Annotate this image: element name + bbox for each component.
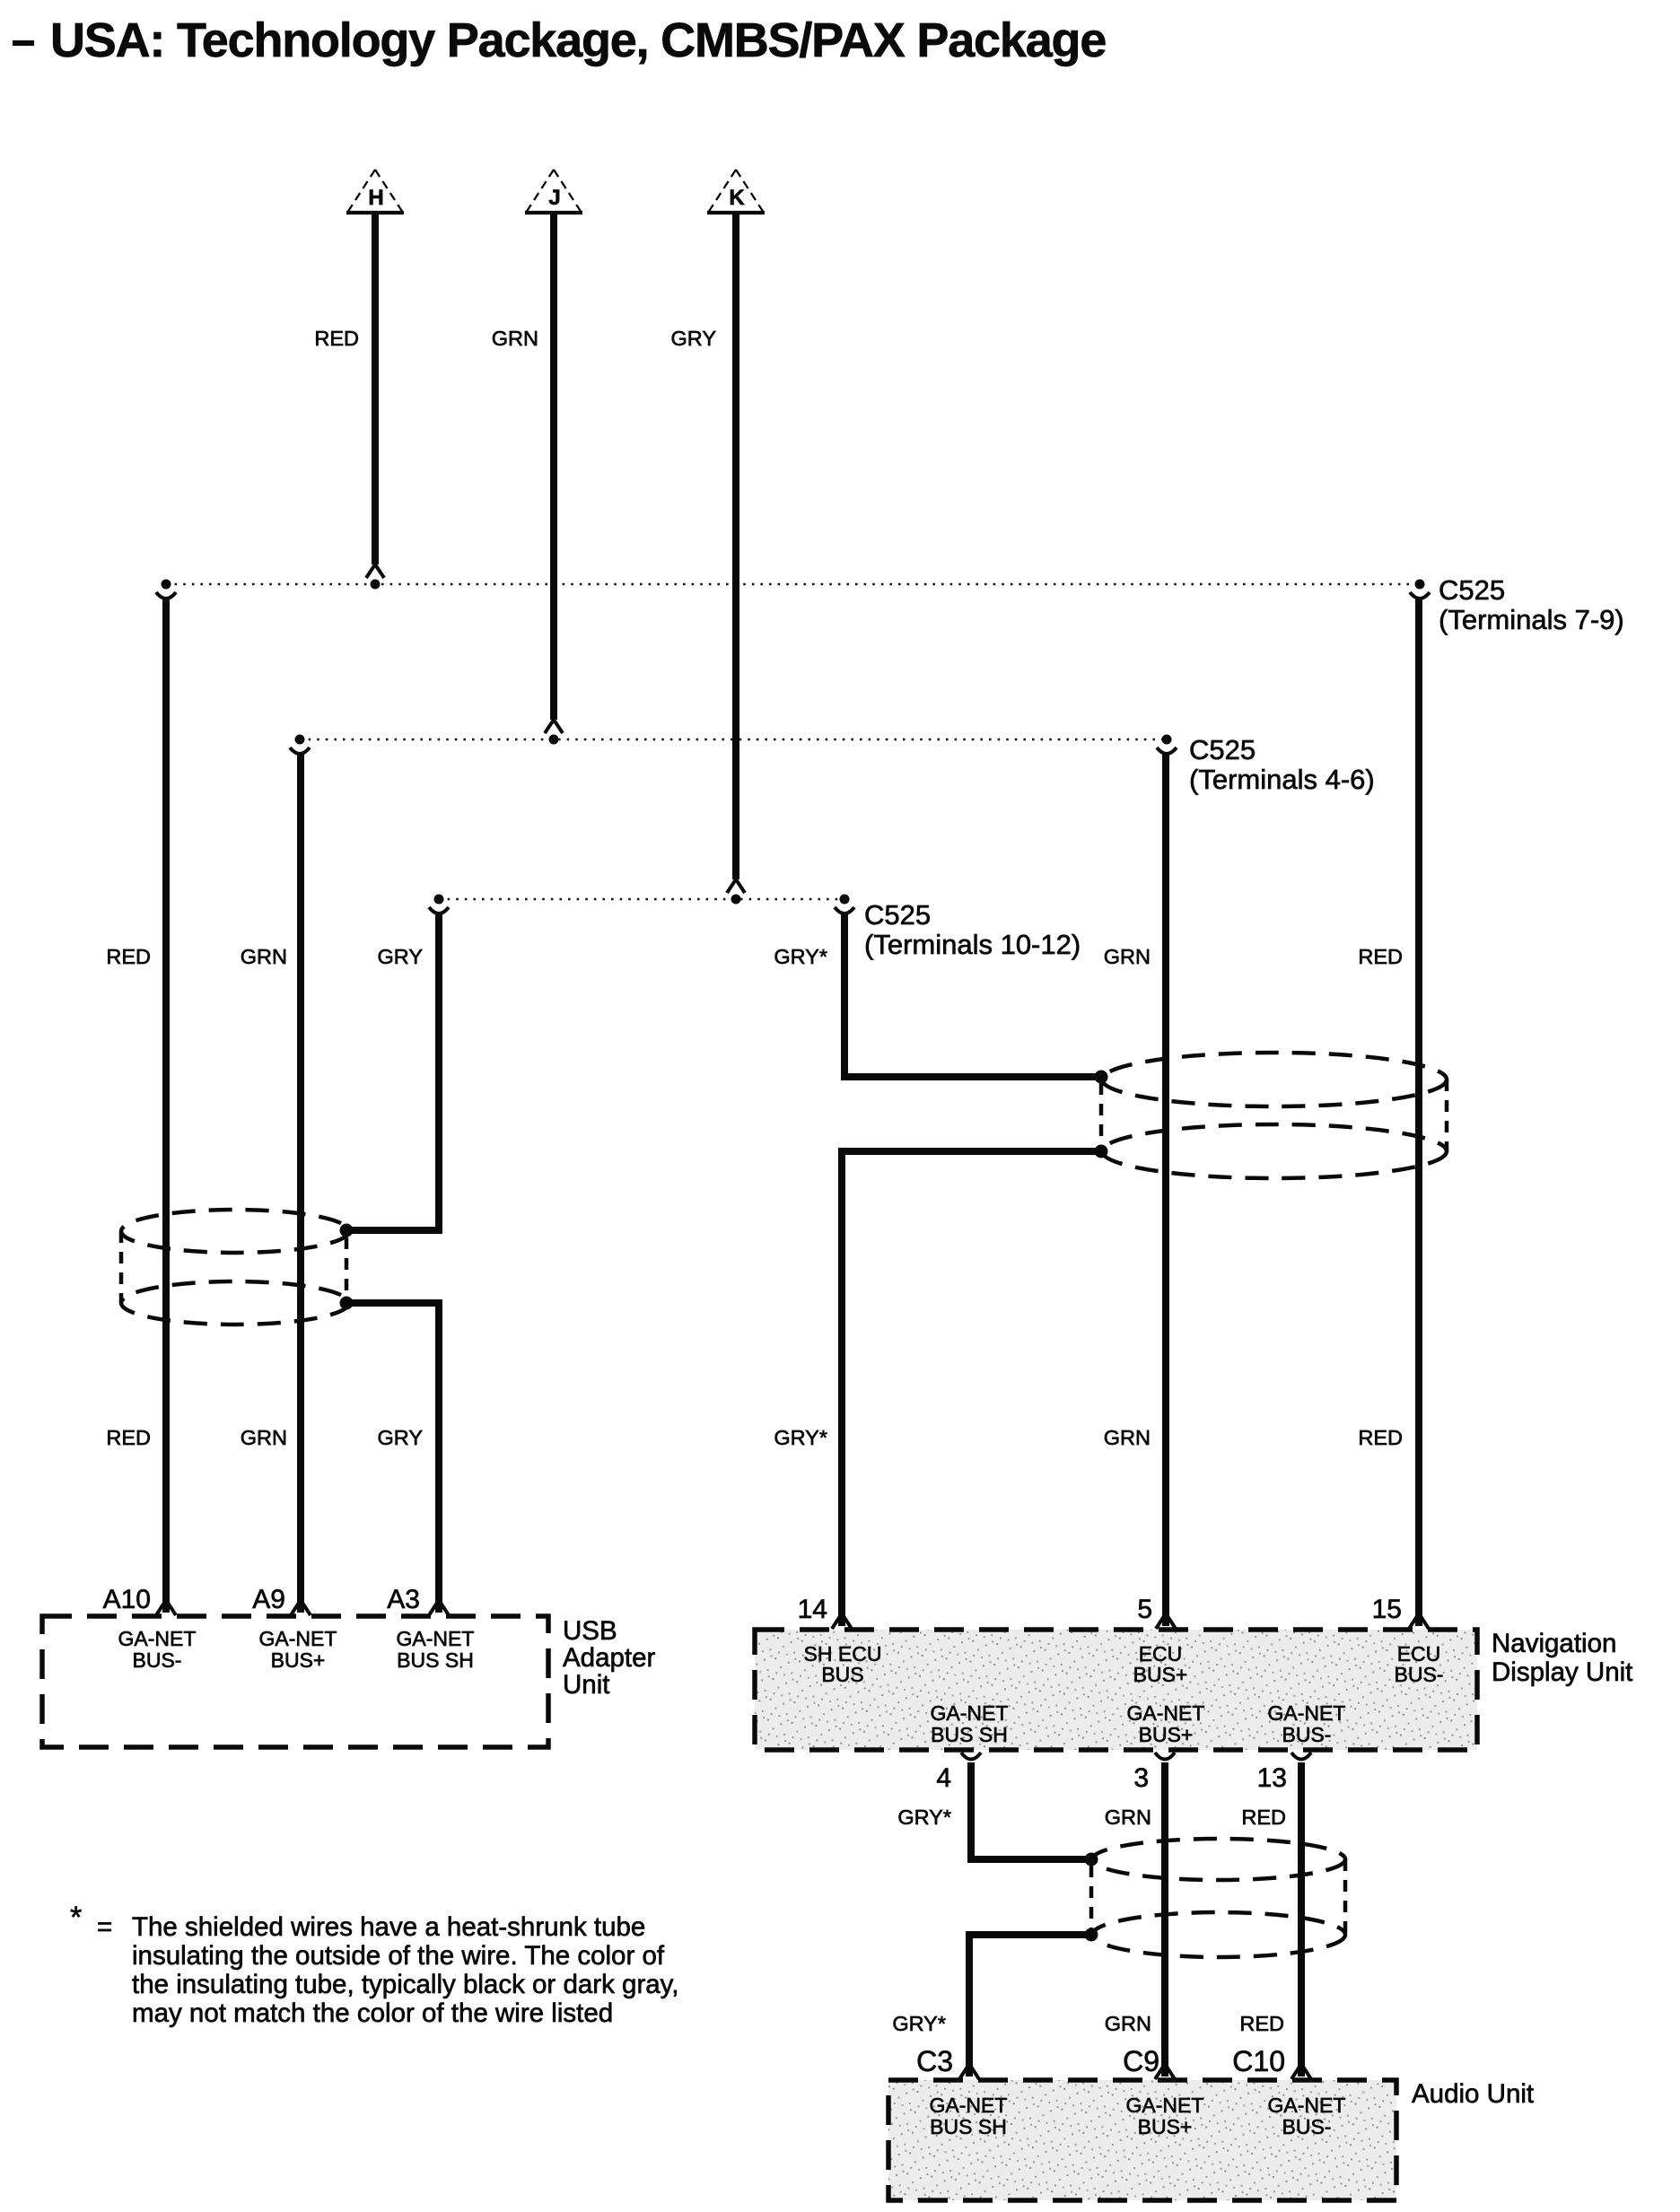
svg-text:GRY: GRY <box>671 327 717 350</box>
svg-text:USA: Technology Package, CMBS/: USA: Technology Package, CMBS/PAX Packag… <box>50 13 1106 67</box>
pin 13 <box>1257 1763 1287 1793</box>
node C525 terminal left of line 2 <box>290 735 310 755</box>
nav box label ECU BUS+ <box>1133 1642 1188 1686</box>
label RED mid-right <box>1358 945 1403 968</box>
svg-text:GRY: GRY <box>378 945 424 968</box>
label GRY lower-left <box>378 1426 424 1449</box>
label GRY mid-left <box>378 945 424 968</box>
svg-text:RED: RED <box>1239 2012 1284 2035</box>
label GRN (J wire) <box>492 327 538 350</box>
svg-text:insulating the outside of the: insulating the outside of the wire. The … <box>132 1941 665 1971</box>
svg-text:Audio Unit: Audio Unit <box>1412 2079 1534 2109</box>
svg-text:(Terminals 4-6): (Terminals 4-6) <box>1189 764 1375 795</box>
wire K GRY vertical <box>727 214 745 905</box>
svg-text:GRY*: GRY* <box>774 945 827 968</box>
svg-text:C525: C525 <box>1189 734 1256 765</box>
svg-text:GA-NET: GA-NET <box>930 2094 1008 2117</box>
svg-text:BUS SH: BUS SH <box>931 1723 1008 1746</box>
pin C3 <box>916 2045 953 2077</box>
connector triangle K <box>707 170 765 213</box>
wire GRY shield bottom to USB A3 <box>340 1297 450 1616</box>
wire GRN left to USB A9 <box>291 755 311 1615</box>
node C525 terminal left of line 1 <box>156 580 176 599</box>
nav box label ECU BUS- <box>1395 1642 1444 1686</box>
svg-text:GRN: GRN <box>1104 1426 1151 1449</box>
node C525 terminal right of line 1 <box>1410 580 1430 599</box>
label C525 terminals 10-12 <box>864 899 1081 960</box>
svg-text:BUS-: BUS- <box>1282 1723 1332 1746</box>
label GRN audio upper <box>1105 1805 1151 1829</box>
svg-text:The shielded wires have a heat: The shielded wires have a heat-shrunk tu… <box>132 1912 645 1942</box>
svg-text:may not match the color of the: may not match the color of the wire list… <box>132 1998 613 2028</box>
audio box label GA-NET BUS SH <box>930 2094 1008 2138</box>
svg-text:C9: C9 <box>1123 2045 1159 2077</box>
svg-text:RED: RED <box>1358 1426 1403 1449</box>
wire GRY* audio shield bottom to audio C3 <box>959 1928 1098 2080</box>
svg-text:J: J <box>548 186 560 210</box>
wire GRY* right shield bottom to navigation pin 14 <box>832 1145 1108 1630</box>
svg-text:BUS+: BUS+ <box>271 1648 326 1672</box>
pin 15 <box>1372 1595 1402 1624</box>
wire H RED vertical <box>366 214 384 590</box>
svg-text:C3: C3 <box>916 2045 953 2077</box>
nav box label SH ECU BUS <box>804 1642 882 1686</box>
connector line C525 terminals 7-9 <box>166 583 1420 586</box>
pin 4 <box>936 1763 951 1793</box>
label RED lower-left <box>106 1426 151 1449</box>
title dash <box>13 40 34 46</box>
USB adapter unit box <box>42 1616 548 1747</box>
wire GRY* to right shield top <box>844 914 1108 1084</box>
svg-text:GA-NET: GA-NET <box>931 1701 1009 1725</box>
USB box label GA-NET BUS- <box>118 1627 197 1672</box>
svg-text:GRN: GRN <box>1105 1805 1151 1829</box>
connector triangle H <box>346 170 404 213</box>
svg-text:GA-NET: GA-NET <box>1268 2094 1346 2117</box>
svg-text:15: 15 <box>1372 1595 1402 1624</box>
svg-text:H: H <box>368 186 383 210</box>
svg-text:14: 14 <box>798 1595 827 1624</box>
svg-text:GRY*: GRY* <box>897 1805 951 1829</box>
pin 5 <box>1137 1595 1152 1624</box>
shield cylinder left (USB harness) <box>121 1210 349 1325</box>
svg-text:*: * <box>70 1901 82 1935</box>
wire GRN right to navigation pin 5 <box>1156 755 1176 1629</box>
connector line C525 terminals 4-6 <box>300 739 1167 741</box>
label GRN audio lower <box>1105 2012 1151 2035</box>
svg-text:GA-NET: GA-NET <box>397 1627 475 1650</box>
svg-text:GRN: GRN <box>1105 2012 1151 2035</box>
svg-text:BUS-: BUS- <box>1282 2115 1332 2138</box>
wire RED right to navigation pin 15 <box>1409 599 1429 1629</box>
svg-text:GA-NET: GA-NET <box>1127 1701 1205 1725</box>
svg-text:K: K <box>729 186 745 210</box>
label GRN lower-right <box>1104 1426 1151 1449</box>
svg-text:=: = <box>97 1912 112 1942</box>
USB box label GA-NET BUS SH <box>397 1627 475 1672</box>
node C525 terminal right of line 3 <box>835 895 854 914</box>
label RED audio upper <box>1241 1805 1286 1829</box>
svg-text:C525: C525 <box>864 899 931 931</box>
label GRY* lower <box>774 1426 827 1449</box>
shield cylinder right (navigation harness) <box>1101 1053 1447 1178</box>
USB box label GA-NET BUS+ <box>259 1627 337 1672</box>
svg-text:BUS SH: BUS SH <box>397 1648 474 1672</box>
pin A9 <box>252 1585 285 1614</box>
svg-text:BUS-: BUS- <box>1395 1663 1444 1686</box>
navigation pin 3 terminal and wire GRN to audio C9 <box>1155 1753 1175 2079</box>
label GRN mid-right <box>1104 945 1151 968</box>
navigation display unit name <box>1492 1629 1632 1687</box>
navigation pin 13 terminal and wire RED to audio C10 <box>1291 1753 1311 2079</box>
svg-text:RED: RED <box>1241 1805 1286 1829</box>
svg-text:BUS-: BUS- <box>133 1648 182 1672</box>
svg-text:GRN: GRN <box>241 945 287 968</box>
wire RED left to USB A10 <box>156 599 176 1615</box>
label GRY* mid <box>774 945 827 968</box>
svg-text:(Terminals 10-12): (Terminals 10-12) <box>864 929 1081 960</box>
svg-text:13: 13 <box>1257 1763 1287 1793</box>
svg-text:GRY: GRY <box>378 1426 424 1449</box>
label C525 terminals 7-9 <box>1439 574 1624 635</box>
label GRY* audio lower <box>892 2012 946 2035</box>
pin C10 <box>1232 2045 1285 2077</box>
svg-text:(Terminals 7-9): (Terminals 7-9) <box>1439 604 1624 635</box>
label RED mid-left <box>106 945 151 968</box>
svg-text:Navigation: Navigation <box>1492 1629 1616 1658</box>
audio box label GA-NET BUS+ <box>1126 2094 1204 2138</box>
node C525 terminal right of line 2 <box>1157 735 1177 755</box>
svg-text:Display Unit: Display Unit <box>1492 1657 1632 1687</box>
svg-text:RED: RED <box>1358 945 1403 968</box>
label C525 terminals 4-6 <box>1189 734 1375 795</box>
footnote <box>70 1901 678 2028</box>
node C525 terminal left of line 3 <box>429 895 449 914</box>
svg-text:GA-NET: GA-NET <box>118 1627 197 1650</box>
pin C9 <box>1123 2045 1159 2077</box>
label GRY* audio upper <box>897 1805 951 1829</box>
svg-text:3: 3 <box>1133 1763 1149 1793</box>
wire GRY left to shield top <box>340 914 440 1237</box>
svg-text:A3: A3 <box>387 1585 420 1614</box>
svg-text:GRN: GRN <box>241 1426 287 1449</box>
svg-text:A9: A9 <box>252 1585 285 1614</box>
nav box label GA-NET BUS- <box>1268 1701 1346 1746</box>
svg-text:GRN: GRN <box>492 327 538 350</box>
svg-text:RED: RED <box>106 1426 151 1449</box>
svg-text:the insulating tube, typically: the insulating tube, typically black or … <box>132 1970 678 1999</box>
label RED audio lower <box>1239 2012 1284 2035</box>
svg-text:Unit: Unit <box>563 1670 609 1700</box>
nav box label GA-NET BUS+ <box>1127 1701 1205 1746</box>
svg-text:GRY*: GRY* <box>892 2012 946 2035</box>
connector triangle J <box>525 170 582 213</box>
label GRN lower-left <box>241 1426 287 1449</box>
pin A3 <box>387 1585 420 1614</box>
svg-text:GRN: GRN <box>1104 945 1151 968</box>
svg-text:GA-NET: GA-NET <box>1126 2094 1204 2117</box>
label RED lower-right <box>1358 1426 1403 1449</box>
svg-text:BUS SH: BUS SH <box>930 2115 1007 2138</box>
shield cylinder audio <box>1091 1839 1345 1957</box>
audio box label GA-NET BUS- <box>1268 2094 1346 2138</box>
svg-text:RED: RED <box>106 945 151 968</box>
svg-text:5: 5 <box>1137 1595 1152 1624</box>
USB adapter unit name <box>563 1616 655 1700</box>
svg-text:BUS: BUS <box>821 1663 863 1686</box>
svg-text:Adapter: Adapter <box>563 1643 655 1673</box>
label GRN mid-left <box>241 945 287 968</box>
label GRY (K wire) <box>671 327 717 350</box>
navigation display unit box <box>755 1630 1477 1750</box>
connector line C525 terminals 10-12 <box>439 898 844 901</box>
svg-text:GRY*: GRY* <box>774 1426 827 1449</box>
pin 3 <box>1133 1763 1149 1793</box>
pin 14 <box>798 1595 827 1624</box>
navigation pin 4 terminal and wire to audio shield <box>961 1753 1098 1867</box>
svg-text:RED: RED <box>314 327 359 350</box>
nav box label GA-NET BUS SH <box>931 1701 1009 1746</box>
svg-text:BUS+: BUS+ <box>1138 2115 1193 2138</box>
svg-text:C10: C10 <box>1232 2045 1285 2077</box>
svg-text:GA-NET: GA-NET <box>259 1627 337 1650</box>
svg-text:4: 4 <box>936 1763 951 1793</box>
title text <box>50 13 1106 67</box>
svg-text:A10: A10 <box>103 1585 151 1614</box>
svg-text:USB: USB <box>563 1616 617 1646</box>
audio unit box <box>888 2080 1396 2200</box>
svg-text:BUS+: BUS+ <box>1139 1723 1194 1746</box>
wire J GRN vertical <box>545 214 563 745</box>
svg-text:C525: C525 <box>1439 574 1505 606</box>
audio unit name <box>1412 2079 1534 2109</box>
svg-text:BUS+: BUS+ <box>1133 1663 1188 1686</box>
pin A10 <box>103 1585 151 1614</box>
label RED (H wire) <box>314 327 359 350</box>
svg-text:GA-NET: GA-NET <box>1268 1701 1346 1725</box>
